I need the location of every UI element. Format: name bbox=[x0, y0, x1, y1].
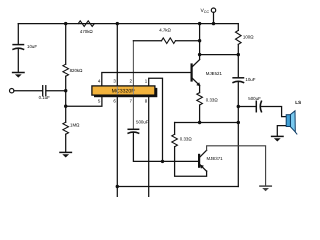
resistor R7 0.33ohm bbox=[172, 134, 178, 146]
wire pin5 run bbox=[66, 96, 102, 107]
capacitor C4 10uF (right) bbox=[233, 77, 243, 79]
svg-text:500uF: 500uF bbox=[136, 119, 149, 124]
wire pin4 to Q1 base bbox=[102, 73, 191, 86]
wire input node to pin5 node bbox=[65, 91, 67, 107]
wire Q2 collector to ground bbox=[207, 146, 266, 186]
wire 100ohm down to C4 bbox=[237, 44, 239, 77]
ground (below C1) bbox=[13, 72, 24, 74]
svg-text:10uF: 10uF bbox=[245, 77, 255, 82]
resistor R1 470k (horizontal on rail) bbox=[78, 21, 94, 27]
wire 1M to ground bbox=[65, 134, 67, 152]
wire 500uF speaker branch bbox=[238, 106, 256, 108]
svg-text:500uF: 500uF bbox=[248, 96, 261, 101]
wire left drop to C1 bbox=[17, 24, 19, 45]
svg-text:0.33Ω: 0.33Ω bbox=[206, 98, 219, 103]
svg-text:100Ω: 100Ω bbox=[243, 34, 254, 39]
wire C4 down, output node, to bottom rail bbox=[237, 82, 239, 187]
svg-text:1MΩ: 1MΩ bbox=[70, 122, 80, 127]
svg-text:10uF: 10uF bbox=[27, 44, 37, 49]
wire C3 to base line bbox=[133, 132, 199, 161]
wire pin8 vertical bbox=[148, 96, 150, 198]
wire output horizontal bbox=[175, 122, 239, 124]
svg-text:MC3320P: MC3320P bbox=[112, 89, 136, 95]
wire R6 to output node bbox=[199, 105, 201, 123]
wire link to 100ohm bbox=[200, 54, 239, 56]
value labels bbox=[27, 28, 261, 162]
wire pin1 route bbox=[149, 78, 163, 161]
wire pin2 vertical from 4.7k bbox=[132, 41, 134, 86]
wire C5 to speaker bbox=[261, 107, 287, 117]
svg-text:0.33Ω: 0.33Ω bbox=[180, 137, 193, 142]
wire Vcc to rail bbox=[213, 12, 215, 23]
svg-text:470kΩ: 470kΩ bbox=[80, 29, 94, 34]
wire pin3/pin6 vertical (full) bbox=[116, 24, 118, 197]
wire Q1 emitter to 0.33 bbox=[199, 85, 201, 92]
wire to 1M bbox=[65, 106, 67, 122]
wire bottom rail bbox=[117, 186, 238, 188]
transistor Q1 MJE521 bbox=[191, 65, 193, 81]
resistor R3 1M bbox=[63, 122, 69, 134]
loudspeaker LS bbox=[286, 100, 301, 135]
svg-text:MJE371: MJE371 bbox=[207, 156, 224, 161]
capacitor C1 10uF (left) bbox=[13, 44, 23, 46]
node Vcc terminal bbox=[211, 8, 215, 12]
ground (below 1M) bbox=[60, 151, 71, 153]
IC U1 MC3320P bbox=[92, 86, 157, 97]
wire to R7 bbox=[174, 123, 176, 135]
node input terminal bbox=[10, 89, 14, 93]
wire C1 to ground bbox=[17, 48, 19, 72]
svg-text:820kΩ: 820kΩ bbox=[70, 68, 84, 73]
wire 100ohm branch bbox=[237, 24, 239, 31]
resistor R2 820k bbox=[63, 64, 69, 76]
svg-text:0.1uF: 0.1uF bbox=[39, 95, 51, 100]
ground (Q2 collector) bbox=[260, 185, 271, 187]
wire 820k branch upper bbox=[65, 24, 67, 65]
wire speaker to ground bbox=[277, 126, 286, 136]
resistor R6 0.33ohm bbox=[197, 93, 203, 105]
wire R7 to Q2 emitter bbox=[175, 147, 207, 177]
resistor R5 100ohm bbox=[236, 30, 242, 44]
capacitor C3 500uF (below IC) bbox=[128, 128, 138, 130]
resistor R4 4.7k bbox=[133, 40, 161, 42]
svg-text:4.7kΩ: 4.7kΩ bbox=[159, 28, 171, 33]
wire input to C2 bbox=[14, 90, 42, 92]
wire Vcc/collector vertical bbox=[199, 24, 201, 60]
capacitor C5 500uF (to speaker) bbox=[255, 101, 257, 111]
pin numbers bbox=[98, 79, 148, 104]
wire pin7 to 500uF bbox=[132, 96, 134, 130]
wire C2 to node bbox=[46, 90, 65, 92]
svg-text:MJE521: MJE521 bbox=[206, 71, 223, 76]
wire top rail bbox=[18, 23, 238, 25]
svg-text:LS: LS bbox=[295, 100, 301, 105]
transistor Q2 MJE371 bbox=[198, 155, 200, 167]
ground (speaker) bbox=[272, 135, 283, 137]
wire 820k to input node bbox=[65, 76, 67, 91]
capacitor C2 0.1uF bbox=[42, 86, 44, 96]
